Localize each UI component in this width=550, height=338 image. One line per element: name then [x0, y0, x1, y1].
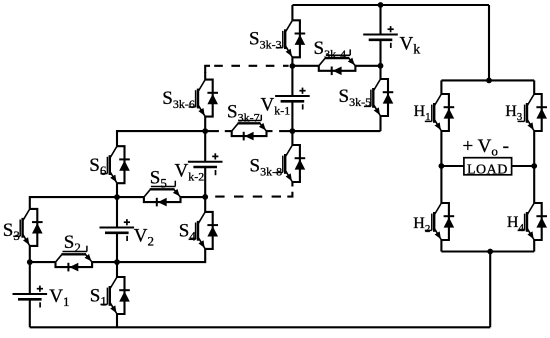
node S2/V2 junction [114, 259, 120, 265]
wire Vk-1 bottom stem [291, 101, 293, 131]
wire S1 emitter stem [116, 314, 118, 327]
transistor S1 (IGBT with anti-parallel diode) [100, 277, 129, 314]
wire S3k-8 collector stem [291, 131, 293, 145]
wire dashed segment left of S3k-7 [208, 130, 219, 132]
transistor S3k-6 (IGBT with anti-parallel diode) [189, 80, 218, 117]
battery V2 [100, 219, 135, 241]
wire node to S2 collector [30, 261, 56, 263]
wire S3k-7 emitter stub [267, 130, 273, 132]
wire left module top rail [30, 197, 144, 209]
node H-bridge bottom junction [487, 249, 493, 255]
LOAD box [464, 158, 512, 178]
transistor H1 (IGBT with anti-parallel diode) [425, 94, 454, 131]
wire S6 top rail segment [117, 131, 205, 146]
wire S3k-6 collector stem [204, 72, 206, 80]
wire H2 collector stem [440, 166, 442, 203]
transistor S2 (IGBT with anti-parallel diode) [56, 246, 93, 272]
wire dashed segment right of S3k-7 [279, 130, 292, 132]
battery Vk-1 [275, 88, 310, 110]
wire S3k-4 emitter to Vk node [355, 65, 380, 67]
wire Vk-1 row right segment [292, 130, 380, 132]
svg-text:LOAD: LOAD [467, 163, 508, 178]
wire V2 bottom stem [116, 233, 118, 262]
wire S6 emitter stem [116, 183, 118, 197]
transistor S3 (IGBT with anti-parallel diode) [13, 209, 42, 246]
wire bottom rail [30, 326, 490, 328]
wire H-bridge bottom rail [441, 250, 534, 252]
wire dashed segment to S5/S4 node [209, 196, 281, 198]
wire Vk-1 top stem [291, 66, 293, 96]
wire V1 bottom stem [29, 299, 31, 327]
wire top rail [292, 4, 489, 6]
transistor S3k-3 (IGBT with anti-parallel diode) [276, 20, 305, 57]
node Vk-1/S3k-8 junction [290, 128, 296, 134]
wire Vk bottom stem [379, 40, 381, 66]
node S3/V1 junction [27, 259, 33, 265]
wire Vk-2 bottom stem [204, 167, 206, 197]
wire H-bridge bottom feed [489, 252, 491, 328]
wire dashed corner stub below S3k-8 [287, 192, 292, 197]
wire segment to S3k-7 collector [225, 130, 232, 132]
wire S5 emitter to node [181, 196, 206, 198]
battery Vk [363, 26, 398, 48]
wire S3k-6 emitter stem [204, 117, 206, 132]
wire H1 collector stem [440, 80, 442, 94]
wire V2 top stem [116, 197, 118, 228]
wire LOAD right lead [512, 165, 535, 167]
wire H-bridge top rail [441, 79, 534, 81]
transistor H3 (IGBT with anti-parallel diode) [518, 94, 547, 131]
wire Vk top stem [379, 5, 381, 35]
node S6 emitter junction [114, 194, 120, 200]
wire S3k-5 emitter stem [379, 116, 381, 131]
node S5/S4/Vk-2 junction [202, 194, 208, 200]
wire H4 emitter stem [533, 240, 535, 252]
transistor S3k-4 (IGBT with anti-parallel diode) [319, 49, 356, 75]
wire S3k-5 collector stem [379, 66, 381, 79]
node S3k-3 emitter junction [290, 63, 296, 69]
node H-bridge top junction [486, 78, 492, 84]
transistor S5 (IGBT with anti-parallel diode) [144, 181, 181, 207]
wire LOAD left lead [441, 165, 464, 167]
wire H3 collector stem [533, 80, 535, 94]
wire V1 top stem [29, 262, 31, 294]
wire dashed corner stub left of S3k-3 row [205, 66, 210, 73]
wire S1 collector stem [116, 262, 118, 277]
wire H2 emitter stem [440, 240, 442, 252]
node LOAD left junction [439, 163, 445, 169]
wire H1 emitter stem [440, 131, 442, 166]
transistor S4 (IGBT with anti-parallel diode) [189, 212, 218, 249]
wire V2 node to S4 leg [117, 249, 205, 262]
transistor S3k-7 (IGBT with anti-parallel diode) [232, 115, 267, 141]
wire Vk-2 top stem [204, 131, 206, 162]
transistor S3k-5 (IGBT with anti-parallel diode) [364, 79, 393, 116]
battery Vk-2 [188, 153, 223, 175]
node Vk bottom junction [378, 63, 384, 69]
node LOAD right junction [531, 163, 537, 169]
wire S3 emitter stem [29, 246, 31, 262]
battery V1 [13, 286, 48, 308]
wire dashed segment to S3k-3 emitter node [214, 65, 288, 67]
wire S4 collector stem [204, 197, 206, 212]
wire H-bridge feed from top rail [488, 5, 490, 80]
transistor S6 (IGBT with anti-parallel diode) [100, 146, 129, 183]
wire stem to S3k-3 collector [291, 5, 293, 20]
wire H3 emitter stem [533, 131, 535, 166]
node S3k-6/Vk-2 junction [202, 128, 208, 134]
transistor H4 (IGBT with anti-parallel diode) [518, 203, 547, 240]
wire H4 collector stem [533, 166, 535, 203]
wire S3k-3 emitter to node [291, 57, 293, 66]
svg-text:+ Vo -: + Vo - [463, 136, 509, 159]
node Vk top junction [378, 2, 384, 8]
transistor H2 (IGBT with anti-parallel diode) [425, 203, 454, 240]
wire S3k-8 emitter stub [291, 182, 293, 187]
wire node to S3k-4 collector [292, 65, 318, 67]
wire S2 emitter to V2 node [92, 261, 117, 263]
transistor S3k-8 (IGBT with anti-parallel diode) [276, 145, 305, 182]
